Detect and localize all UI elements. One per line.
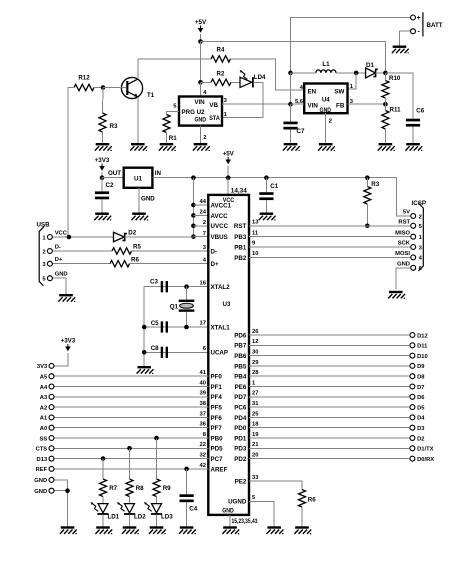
wire R4 left [138,58,211,60]
svg-text:PB1: PB1 [234,244,247,251]
terminal D13 (left header) [49,456,54,461]
LED LD2 [117,502,146,521]
svg-text:UVCC: UVCC [211,223,229,230]
wire RST row [249,225,410,227]
wire CTS row [55,447,209,449]
svg-text:UCAP: UCAP [211,350,229,357]
svg-text:ICSP: ICSP [412,200,426,207]
svg-text:15,23,35,43: 15,23,35,43 [232,519,259,525]
svg-text:44: 44 [200,199,207,205]
svg-text:AREF: AREF [211,466,228,473]
svg-text:39: 39 [200,391,207,397]
svg-text:12: 12 [252,339,258,345]
svg-text:C6: C6 [416,108,424,115]
svg-text:+5V: +5V [223,151,235,158]
ground under LD3 [149,526,166,534]
svg-text:PD7: PD7 [234,394,247,401]
terminal A2 (left header) [49,405,54,410]
ground under LD1 [95,526,112,534]
wire PB3/MISO row [249,236,410,238]
terminal D3 [410,425,415,430]
wire T1 base [103,87,127,89]
IC U1 regulator [124,168,153,188]
terminal CTS (left header) [49,446,54,451]
terminal ICSP RST [411,223,416,228]
terminal BATT + [411,15,416,20]
svg-text:R11: R11 [390,107,402,114]
svg-text:U1: U1 [134,176,142,183]
junction left bus/C5 [142,325,147,330]
terminal D10 [410,353,415,358]
terminal A1 (left header) [49,415,54,420]
svg-text:D1: D1 [366,62,374,69]
svg-text:LD3: LD3 [161,513,173,520]
junction R9 tap [154,436,159,441]
svg-text:D8: D8 [417,375,425,381]
wire D8 row [249,375,409,377]
terminal USB 5 GND [47,276,52,281]
wire node to R3 [102,88,105,114]
svg-text:A1: A1 [40,416,48,422]
svg-text:R4: R4 [217,47,225,54]
resistor R6 (USB) [110,256,139,267]
svg-text:PF6: PF6 [211,415,223,422]
svg-text:PF4: PF4 [211,394,223,401]
svg-text:PD0: PD0 [234,425,247,432]
power +5V (U3) [223,151,235,165]
IC U4 boost converter [304,84,347,114]
svg-text:GND: GND [34,478,47,484]
svg-text:16: 16 [200,280,207,286]
terminal ICSP GND [411,265,416,270]
wire +3V3 stub [101,172,103,177]
resistor R3 (RST pullup) [364,181,380,204]
svg-text:AVCC1: AVCC1 [211,202,232,209]
svg-text:30: 30 [252,350,258,356]
svg-text:RST: RST [398,219,410,225]
junction D1/R10/C6 [383,71,388,76]
wire LD3 to ground [156,515,158,527]
svg-text:PC7: PC7 [211,456,224,463]
svg-text:10: 10 [252,251,258,257]
ground under T1 [130,143,147,151]
wire U3 GND stub [229,515,231,526]
svg-text:C1: C1 [270,183,278,190]
wire R8 to LD2 [129,497,131,504]
svg-text:D10: D10 [417,354,428,360]
wire R8 column [129,448,131,479]
resistor R11 [382,107,401,130]
wire R6 to U3 D+ [130,263,209,265]
resistor R2 [211,71,231,86]
terminal A3 (left header) [49,394,54,399]
ground UGND [267,526,284,534]
wire R10 bottom to FB node [384,98,386,104]
svg-text:+: + [417,15,421,22]
svg-text:OUT: OUT [108,170,121,177]
svg-text:37: 37 [200,411,206,417]
svg-text:PB2: PB2 [234,255,247,262]
wire R11 to ground [384,129,386,143]
terminal USB 1 VCC [47,235,52,240]
ground under R11 [378,143,395,151]
svg-text:D13: D13 [37,457,48,463]
power +3V3 (terminal) [61,338,76,352]
svg-text:T1: T1 [147,92,155,99]
ground under U1 [131,213,148,221]
junction rail/AVCC bus [191,175,196,180]
svg-text:CTS: CTS [36,447,48,453]
wire +5V down to R2 node [200,42,202,83]
terminal A4 (left header) [49,384,54,389]
svg-text:VBUS: VBUS [211,234,228,241]
capacitor C5 [151,320,168,332]
wire A3 row [55,396,209,398]
svg-text:32: 32 [200,453,206,459]
wire LD1 to ground [102,515,104,527]
wire R7 to LD1 [102,497,104,504]
wire down to U2 VIN pin 4 [200,82,202,96]
wire +5V stub (U3) [227,166,229,178]
wire UGND [249,501,274,526]
svg-text:GND: GND [397,261,410,267]
terminal D9 [410,363,415,368]
terminal ICSP MISO [411,234,416,239]
svg-text:PE2: PE2 [235,478,247,485]
svg-text:24: 24 [200,210,207,216]
svg-text:D1/TX: D1/TX [417,447,434,453]
LED LD3 [144,502,173,521]
wire C4 column [186,469,188,494]
wire R3 to ground [102,132,104,143]
svg-text:VB: VB [209,102,218,109]
wire battery node down to VIN [290,73,292,104]
junction +5V rail [198,39,203,44]
terminal ICSP SCK [411,245,416,250]
ground under LD2 [122,526,139,534]
wire U2 GND pin 2 [200,126,202,143]
wire D7 row [249,386,409,388]
resistor R5 [112,244,141,255]
wire SW node down to U4 SW [348,73,357,89]
wire C7 to ground [290,130,292,144]
resistor R9 [153,479,171,497]
svg-text:28: 28 [252,370,259,376]
resistor R7 [100,479,118,497]
capacitor C1 [259,183,278,200]
svg-text:26: 26 [252,329,259,335]
wire C1 to ground [265,200,267,212]
svg-text:PB3: PB3 [234,234,247,241]
svg-text:UGND: UGND [228,499,247,506]
svg-text:PF5: PF5 [211,405,223,412]
svg-text:PD4: PD4 [234,415,247,422]
junction R3/RST [365,224,370,229]
svg-text:R10: R10 [389,75,401,82]
svg-text:R6: R6 [131,256,139,263]
diode D2 [114,230,137,242]
svg-text:AVCC: AVCC [211,213,229,220]
wire rail down to D1 cathode [384,42,386,73]
wire ICSP GND [396,268,410,290]
wire D10 row [249,355,409,357]
IC U3 microcontroller [208,195,249,515]
power +5V (top) [195,19,207,33]
bracket USB [39,226,44,285]
svg-text:R12: R12 [78,74,90,81]
wire D6 row [249,396,409,398]
resistor R10 [382,75,401,98]
svg-text:PB5: PB5 [234,363,247,370]
svg-text:C3: C3 [150,279,158,286]
ground under R1 [159,143,176,151]
svg-text:+5V: +5V [195,19,207,26]
terminal D0/RX [410,456,415,461]
svg-text:D5: D5 [417,405,425,411]
svg-text:PF0: PF0 [211,374,223,381]
svg-text:D2: D2 [417,436,424,442]
wire VIN node to C7 [290,104,292,121]
svg-text:36: 36 [200,422,207,428]
svg-text:PF7: PF7 [211,425,223,432]
wire UCAP row [144,351,208,353]
svg-text:5V: 5V [403,210,410,216]
svg-text:Q1: Q1 [170,303,179,310]
wire C1 down [265,178,267,193]
svg-text:LD2: LD2 [134,513,146,520]
power +3V3 (U1) [95,157,110,171]
terminal ICSP MOSI [411,255,416,260]
capacitor C4 [180,494,198,512]
svg-text:41: 41 [200,370,207,376]
svg-text:BATT: BATT [427,22,443,29]
wire R7 column [102,459,104,479]
svg-text:PD6: PD6 [234,332,247,339]
wire R5 to U3 D- [132,250,209,252]
wire +5V stub to rail [200,34,202,42]
junction VIN 5,6 [288,102,293,107]
wire R9 to LD3 [156,497,158,504]
wire D2 row [249,437,409,439]
wire REF row [55,468,209,470]
wire T1 collector up to R4 [137,59,139,79]
resistor R6 (PE2) [299,490,317,508]
terminal A0 (left header) [49,425,54,430]
wire R1 to ground [166,133,168,144]
wire U1 OUT [102,177,124,179]
svg-text:R1: R1 [169,135,177,142]
junction bus/AVCC1 [191,203,196,208]
svg-text:C8: C8 [151,345,159,352]
svg-text:33: 33 [252,475,259,481]
junction battery/L1 [288,71,293,76]
wire R6 to ground [301,507,303,526]
wire AVCC1 stub [193,204,208,206]
wire R4 right to U4 EN [231,59,305,90]
wire U4 VIN stub [291,103,305,105]
svg-text:11: 11 [252,230,259,236]
junction rail/R3 pullup [365,175,370,180]
svg-text:GND: GND [55,272,68,278]
svg-text:C7: C7 [297,128,305,135]
wire USB D- to R5 [53,250,112,252]
wire LD2 to ground [129,515,131,527]
svg-text:LD1: LD1 [108,513,120,520]
wire A5 row [55,375,209,377]
svg-text:A5: A5 [40,375,48,381]
svg-text:38: 38 [200,401,207,407]
svg-text:GND: GND [222,507,234,514]
wire BATT+ rail [291,18,410,73]
svg-text:PF1: PF1 [211,384,223,391]
diode D1 [366,62,378,78]
svg-text:R8: R8 [136,485,144,492]
svg-text:L1: L1 [322,61,330,68]
bracket BATT [422,12,424,36]
wire D4 row [249,416,409,418]
wire USB GND [53,278,66,294]
wire GND terminal 2 [55,490,68,492]
terminal D5 [410,405,415,410]
svg-text:17: 17 [200,321,206,327]
svg-text:STA: STA [209,115,220,122]
wire PE2 to R6 [249,481,302,490]
svg-text:18: 18 [252,422,259,428]
junction C3/Q1/XTAL2 [184,284,189,289]
terminal D1/TX [410,446,415,451]
svg-text:SS: SS [39,436,47,442]
wire battery node to L1 [291,72,316,74]
wire U2 PRG to R1 [167,112,180,115]
junction R8 tap [127,446,132,451]
ground USB [58,294,75,302]
svg-text:R7: R7 [109,485,117,492]
wire L1 to D1 [336,72,366,74]
svg-text:21: 21 [252,442,259,448]
svg-text:R2: R2 [217,71,225,78]
ground left header [60,526,77,534]
wire 5V mid rail [152,178,409,216]
capacitor C6 [406,108,425,127]
wire D1 cathode to 5V node [376,72,386,74]
ground under C2 [94,213,111,221]
svg-text:A3: A3 [40,395,48,401]
terminal D12 [410,333,415,338]
svg-text:D4: D4 [417,416,425,422]
capacitor C8 [151,345,168,358]
svg-text:2: 2 [203,135,206,141]
svg-text:A0: A0 [40,426,47,432]
wire R3 pullup to RST [366,204,368,226]
ground under U2 [193,143,210,151]
svg-text:+3V3: +3V3 [61,338,76,345]
wire AVCC bus [192,178,194,237]
svg-text:PC6: PC6 [234,405,247,412]
terminal SS (left header) [49,436,54,441]
svg-text:VIN: VIN [308,102,319,109]
svg-text:PRG U2: PRG U2 [182,109,206,116]
junction rail/VCC [226,175,231,180]
capacitor C3 [150,279,168,293]
terminal D6 [410,394,415,399]
terminal ICSP 5V [411,214,416,219]
terminal D8 [410,374,415,379]
wire PB1/SCK row [249,246,410,248]
svg-text:RST: RST [234,223,247,230]
wire D9 row [249,365,409,367]
svg-text:REF: REF [36,467,48,473]
ground BATT- [392,46,409,54]
svg-text:PD3: PD3 [234,446,247,453]
resistor R3 (charger) [99,113,118,132]
svg-text:IN: IN [155,170,162,177]
svg-text:22: 22 [200,442,206,448]
wire USB VCC to D2 [53,236,113,238]
wire A1 row [55,416,209,418]
svg-text:PD5: PD5 [211,446,224,453]
junction AREF/C4 [184,467,189,472]
svg-text:GND: GND [34,489,47,495]
svg-text:19: 19 [252,432,259,438]
svg-text:D+: D+ [211,261,219,268]
svg-text:2: 2 [42,249,45,255]
svg-text:PB7: PB7 [234,343,247,350]
svg-text:3V3: 3V3 [37,364,48,370]
wire XTAL1 row [144,326,208,328]
svg-text:PB0: PB0 [211,435,224,442]
svg-text:GND: GND [320,107,332,114]
svg-text:C2: C2 [106,182,114,189]
svg-text:FB: FB [336,102,345,109]
terminal D7 [410,384,415,389]
junction SW node [354,71,359,76]
svg-text:13: 13 [252,220,259,226]
wire R3 pullup top [366,178,368,187]
wire D5 row [249,406,409,408]
wire C4 to ground [186,502,188,526]
ground under U3 [222,526,239,534]
ground under C7 [283,143,300,151]
svg-text:PB6: PB6 [234,353,247,360]
resistor R12 [74,74,94,90]
wire AVCC stub [193,214,208,216]
wire R2 right to LD4 [231,81,240,83]
svg-text:D0/RX: D0/RX [417,457,434,463]
wire C2 down [101,178,103,192]
svg-text:VIN: VIN [194,99,205,106]
svg-text:XTAL1: XTAL1 [211,324,231,331]
svg-text:LD4: LD4 [254,74,266,81]
wire D13 row [55,458,209,460]
svg-text:25: 25 [252,411,259,417]
resistor R4 [211,47,231,63]
LED LD1 [91,502,120,521]
wire PB2/MOSI row [249,256,410,258]
wire D0/RX row [249,458,409,460]
svg-text:R5: R5 [133,244,141,251]
wire +5V rail top [201,41,386,43]
svg-text:29: 29 [252,360,259,366]
wire U4 FB to divider [348,103,386,105]
svg-text:D+: D+ [55,257,63,263]
wire D11 row [249,344,409,346]
terminal 3V3 (left header) [49,363,54,368]
svg-text:SCK: SCK [398,241,411,247]
svg-text:20: 20 [252,453,258,459]
svg-text:42: 42 [200,463,206,469]
inductor L1 [316,61,336,73]
ground under U4 [318,143,335,151]
